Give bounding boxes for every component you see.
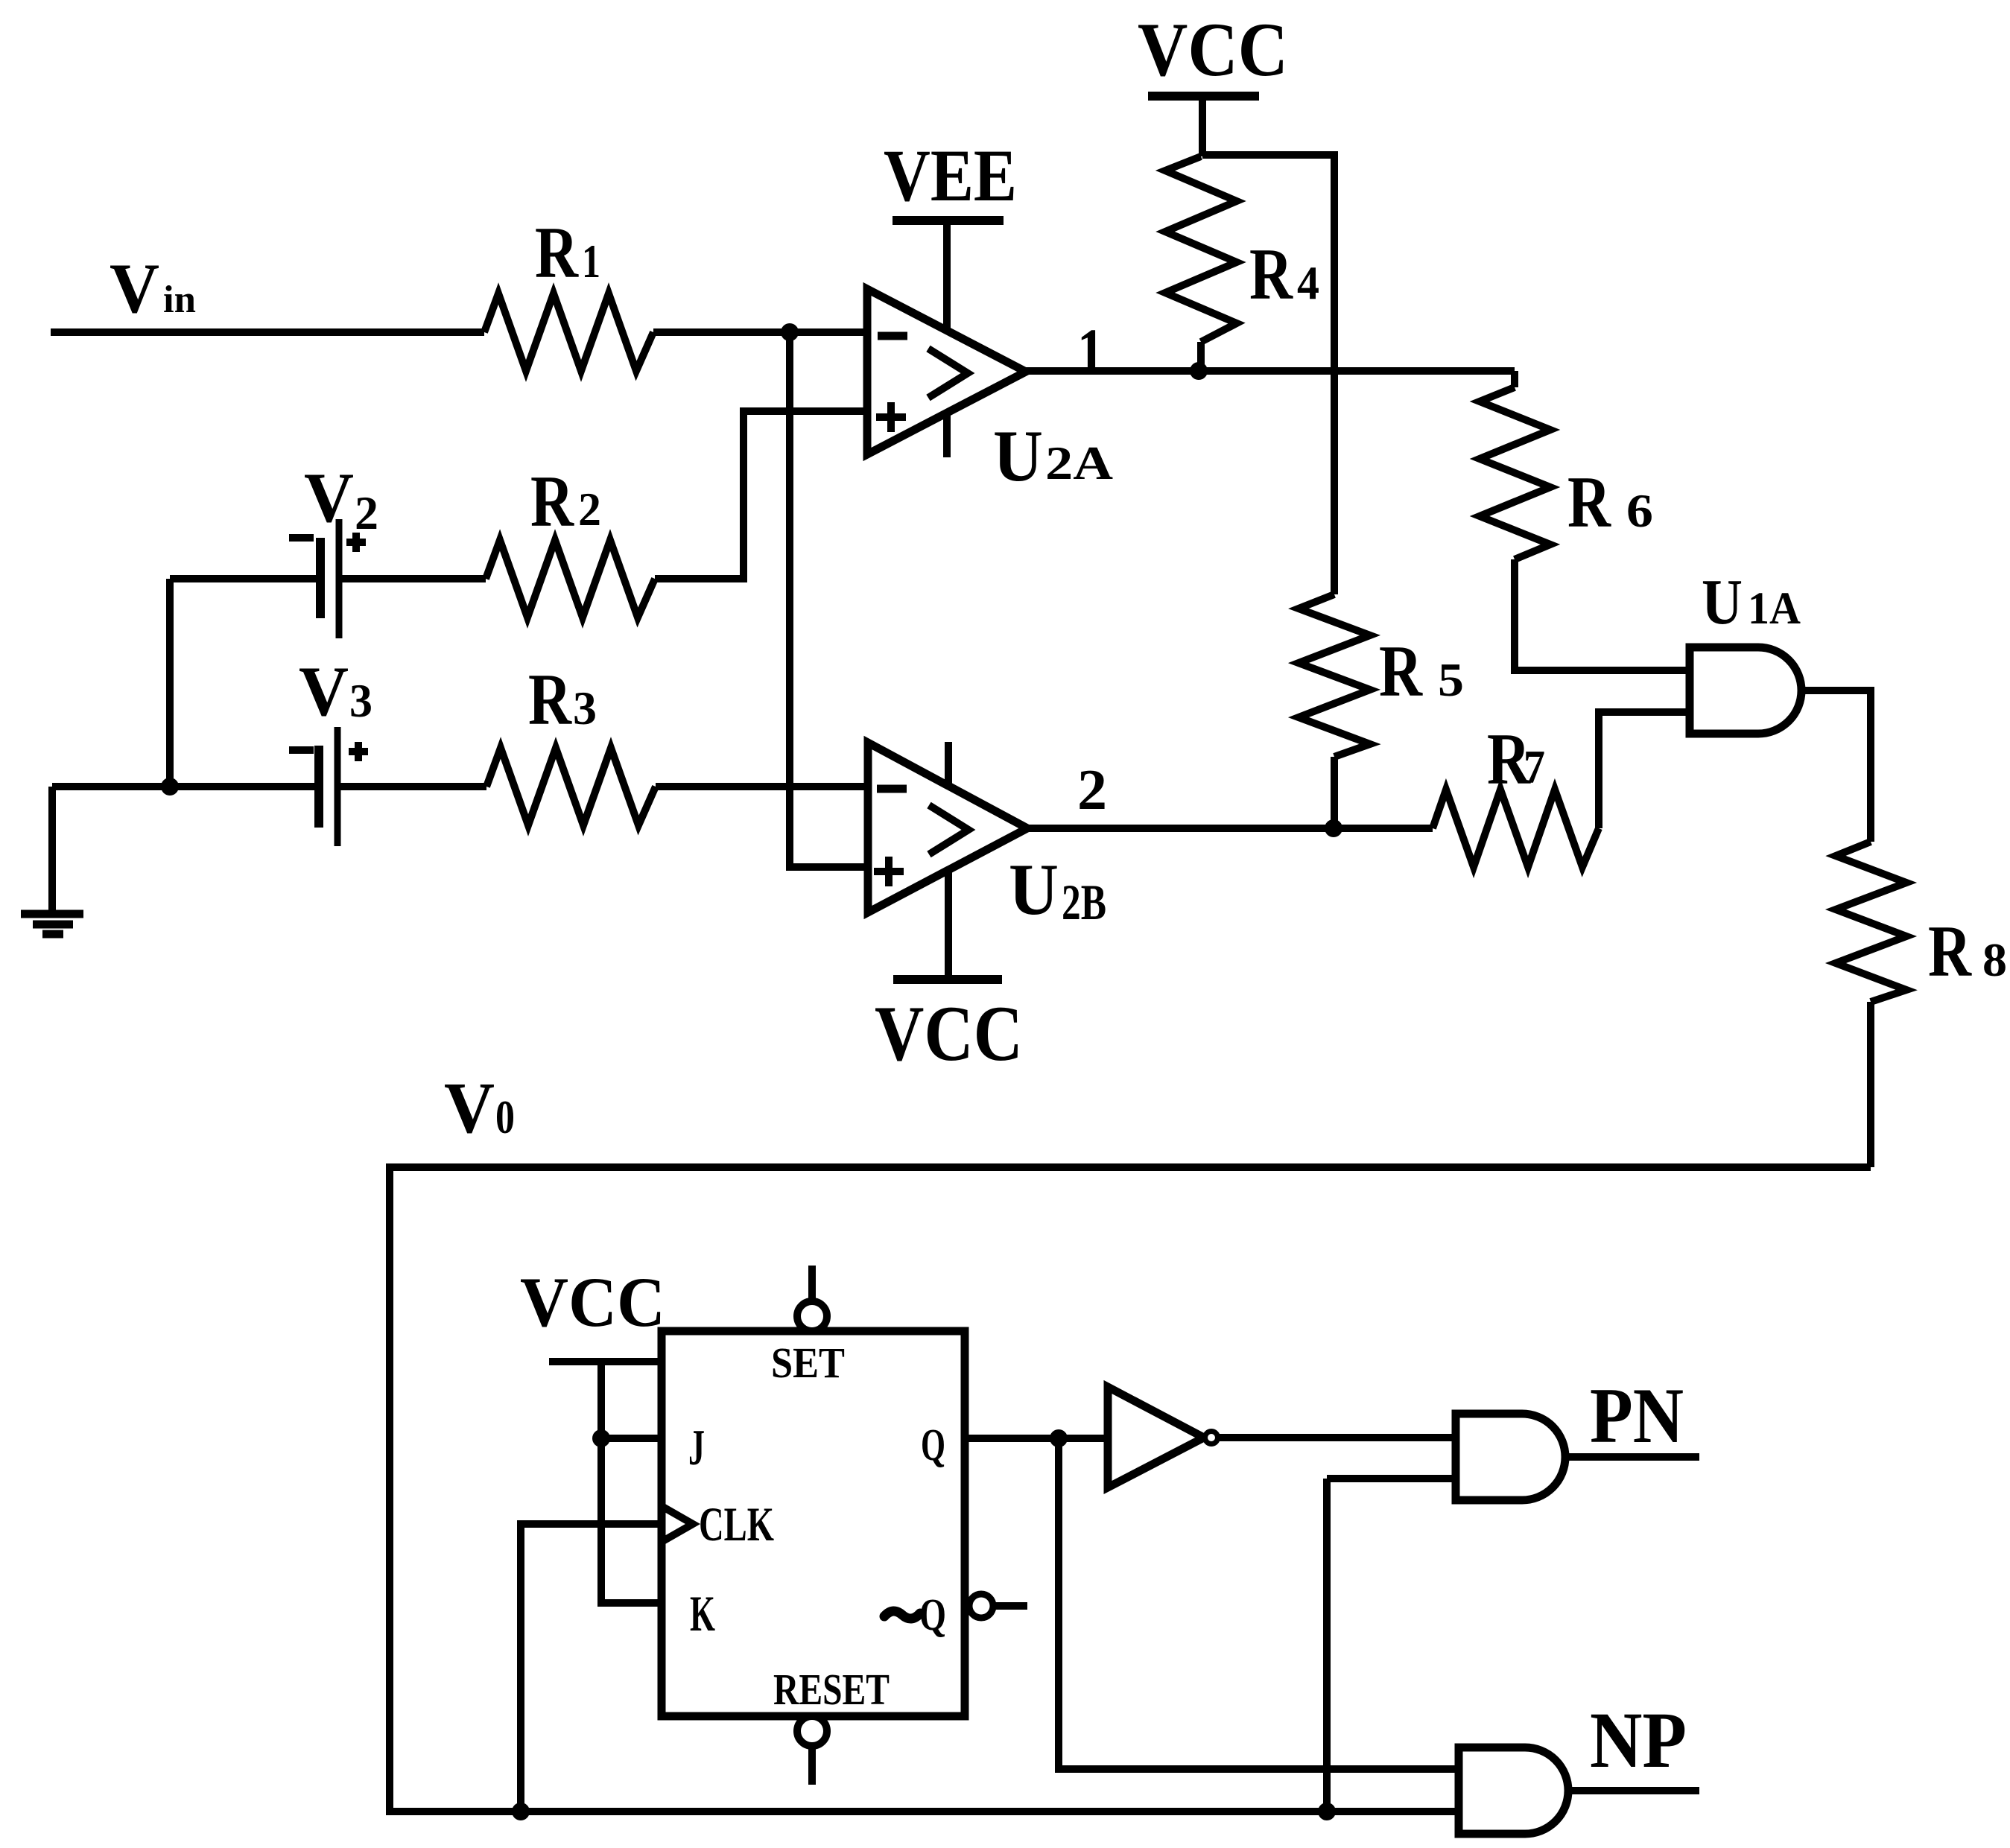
svg-text:VCC: VCC — [875, 990, 1023, 1077]
svg-text:CLK: CLK — [699, 1498, 774, 1552]
svg-text:in: in — [163, 279, 196, 321]
svg-text:R: R — [530, 461, 574, 542]
svg-text:1A: 1A — [1748, 584, 1801, 634]
svg-text:6: 6 — [1626, 484, 1653, 537]
svg-text:2: 2 — [355, 486, 378, 539]
svg-text:U: U — [1009, 849, 1059, 930]
svg-text:2: 2 — [1077, 758, 1107, 822]
svg-text:R: R — [1567, 462, 1611, 543]
svg-text:VCC: VCC — [520, 1263, 665, 1341]
svg-text:Q: Q — [921, 1420, 945, 1470]
svg-text:8: 8 — [1982, 933, 2007, 986]
svg-text:R: R — [1249, 234, 1293, 315]
svg-text:1: 1 — [582, 235, 600, 288]
svg-text:0: 0 — [495, 1090, 515, 1143]
svg-text:5: 5 — [1438, 653, 1464, 706]
svg-text:SET: SET — [771, 1339, 845, 1387]
svg-text:R: R — [535, 212, 579, 293]
svg-text:R: R — [528, 659, 572, 740]
svg-text:2B: 2B — [1062, 874, 1106, 930]
svg-text:NP: NP — [1590, 1697, 1687, 1785]
svg-text:U: U — [1702, 565, 1743, 638]
svg-text:U: U — [993, 416, 1043, 497]
svg-text:3: 3 — [349, 674, 372, 727]
svg-text:2: 2 — [578, 483, 601, 536]
svg-text:V: V — [444, 1068, 495, 1149]
svg-text:2A: 2A — [1045, 436, 1113, 489]
svg-text:R: R — [1379, 631, 1423, 712]
svg-text:VEE: VEE — [884, 134, 1017, 217]
svg-text:K: K — [690, 1585, 715, 1642]
svg-text:RESET: RESET — [773, 1665, 890, 1714]
svg-text:4: 4 — [1297, 256, 1319, 309]
svg-text:V: V — [110, 249, 159, 328]
svg-text:V: V — [304, 458, 354, 537]
svg-text:VCC: VCC — [1138, 7, 1288, 92]
svg-text:PN: PN — [1590, 1372, 1684, 1459]
svg-text:Q: Q — [919, 1590, 946, 1640]
svg-text:V: V — [299, 652, 349, 731]
svg-text:7: 7 — [1524, 740, 1545, 793]
svg-text:1: 1 — [1077, 316, 1104, 389]
svg-text:R: R — [1928, 911, 1972, 992]
svg-text:J: J — [688, 1419, 705, 1476]
svg-text:3: 3 — [573, 682, 597, 734]
